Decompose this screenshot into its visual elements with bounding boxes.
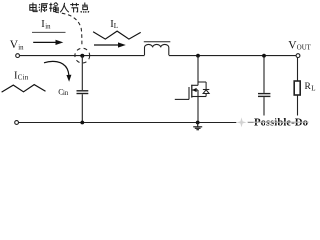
char 电 <box>30 3 37 12</box>
waveform IL (inductor current triangle wave) <box>93 31 141 39</box>
MOSFET Q1 (N-channel with body diode) <box>175 56 206 123</box>
wire: top rail left segment <box>20 55 145 57</box>
MOSFET body arrow <box>192 88 197 92</box>
terminal: bottom-left return open circle <box>15 121 19 125</box>
inductor L <box>144 42 171 55</box>
junction dot: MOSFET source on bottom rail <box>196 121 200 125</box>
terminal: VOUT open circle <box>296 54 300 58</box>
svg-text:in: in <box>63 90 69 97</box>
junction dot: Cout top <box>262 54 266 58</box>
junction dot: Cout bottom <box>262 121 266 125</box>
arrow IL <box>94 42 126 47</box>
middle stub (body) <box>192 89 198 91</box>
char 入 <box>60 3 69 12</box>
drain wire <box>197 56 199 86</box>
char 节 <box>70 3 79 13</box>
line under Iin <box>32 31 66 33</box>
char 源 <box>39 4 48 13</box>
curved arrow from node to Cin <box>44 61 69 75</box>
channel bar <box>191 85 193 98</box>
resistor RL <box>294 58 300 123</box>
junction dot: Cin on bottom rail <box>80 121 84 125</box>
svg-text:in: in <box>18 44 24 51</box>
wire: top rail right segment <box>169 55 296 57</box>
svg-text:in: in <box>45 23 51 30</box>
ground <box>193 123 202 130</box>
terminal: Vin input open circle <box>16 54 20 58</box>
caption 电源输入节点 (drawn strokes) <box>30 3 89 13</box>
right vertical middle-to-source <box>197 90 199 97</box>
junction dot: switch node on top rail <box>196 54 200 58</box>
body diode D1 <box>198 82 209 97</box>
char 点 <box>81 3 89 13</box>
watermark text Possible-Do <box>254 117 308 129</box>
svg-text:OUT: OUT <box>297 45 312 52</box>
waveform ICin (input cap ripple) <box>2 85 46 93</box>
svg-text:Cin: Cin <box>18 74 29 82</box>
source wire down <box>197 97 199 123</box>
arrow Iin <box>33 40 63 45</box>
dashed node circle (power input node) <box>75 48 90 63</box>
watermark strikethrough line <box>248 121 309 123</box>
capacitor Cin <box>77 56 89 123</box>
svg-text:L: L <box>311 84 315 92</box>
svg-text:L: L <box>114 22 118 30</box>
wire: bottom rail <box>19 122 298 124</box>
capacitor Cout <box>258 56 270 123</box>
gate bar <box>188 87 190 99</box>
node junction dot <box>80 54 84 58</box>
watermark halo patches <box>236 116 248 129</box>
dashed leader curve from caption to node <box>56 12 82 46</box>
gate lead <box>175 98 189 100</box>
top stub (drain) <box>191 84 198 86</box>
watermark ornament star <box>236 117 246 127</box>
bottom stub (source, extends to diode) <box>191 96 206 98</box>
char 输 <box>49 3 58 12</box>
